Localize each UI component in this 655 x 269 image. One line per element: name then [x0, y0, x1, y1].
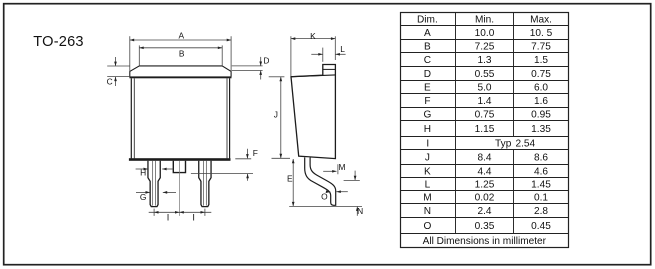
svg-text:1.5: 1.5 [534, 55, 548, 66]
dimension J [269, 76, 285, 78]
svg-text:1.45: 1.45 [531, 180, 551, 191]
svg-text:8.6: 8.6 [534, 153, 548, 164]
svg-text:4.6: 4.6 [534, 167, 548, 178]
front view body right inner edge [226, 78, 228, 158]
svg-text:L: L [340, 44, 345, 54]
svg-text:L: L [425, 180, 431, 191]
svg-text:K: K [310, 31, 316, 41]
svg-text:H: H [140, 167, 146, 177]
dimension C [107, 65, 129, 67]
svg-text:7.25: 7.25 [475, 42, 495, 53]
svg-text:0.35: 0.35 [475, 221, 495, 232]
svg-text:1.3: 1.3 [477, 55, 491, 66]
dimension K [290, 36, 292, 76]
svg-text:8.4: 8.4 [477, 153, 491, 164]
svg-text:0.75: 0.75 [475, 110, 495, 121]
svg-text:M: M [339, 162, 346, 172]
dimension O [326, 191, 331, 194]
svg-text:2.8: 2.8 [534, 206, 548, 217]
svg-text:1.15: 1.15 [475, 124, 495, 135]
svg-text:J: J [425, 153, 430, 164]
svg-text:J: J [274, 109, 278, 119]
dimension B [138, 45, 140, 65]
front view body right edge [229, 78, 231, 158]
svg-text:I: I [192, 213, 195, 223]
dimension D [232, 65, 263, 67]
svg-text:TO-263: TO-263 [33, 34, 83, 50]
svg-text:0.1: 0.1 [534, 193, 548, 204]
svg-text:7.75: 7.75 [531, 42, 551, 53]
svg-text:Typ: Typ [495, 139, 512, 150]
svg-text:10.0: 10.0 [475, 28, 495, 39]
svg-text:I: I [167, 213, 170, 223]
dimension N [344, 179, 360, 181]
svg-text:10. 5: 10. 5 [530, 28, 553, 39]
svg-text:G: G [423, 110, 431, 121]
front view center stub lead [173, 161, 185, 173]
dimension E [292, 159, 294, 206]
svg-text:All Dimensions in millimeter: All Dimensions in millimeter [423, 236, 547, 247]
svg-text:0.55: 0.55 [475, 69, 495, 80]
svg-text:A: A [424, 28, 431, 39]
svg-text:F: F [424, 96, 430, 107]
svg-text:6.0: 6.0 [534, 83, 548, 94]
front view body left edge [130, 78, 132, 158]
svg-text:1.25: 1.25 [475, 180, 495, 191]
svg-text:0.45: 0.45 [531, 221, 551, 232]
svg-text:M: M [423, 193, 431, 204]
svg-text:O: O [423, 221, 431, 232]
svg-text:Dim.: Dim. [417, 15, 438, 26]
svg-text:4.4: 4.4 [477, 167, 491, 178]
dimension L [322, 48, 324, 62]
front view right lead [199, 161, 211, 207]
svg-text:I: I [426, 139, 429, 150]
side view lead (S-bend) [305, 157, 336, 205]
svg-text:1.6: 1.6 [534, 96, 548, 107]
dimension M [337, 164, 339, 174]
dimension table [401, 13, 569, 248]
center line through stub [178, 161, 180, 216]
dimension A [129, 36, 131, 71]
front view tab outline [130, 66, 231, 77]
svg-text:0.95: 0.95 [531, 110, 551, 121]
svg-text:5.0: 5.0 [477, 83, 491, 94]
svg-text:K: K [424, 167, 431, 178]
svg-text:1.4: 1.4 [477, 96, 491, 107]
svg-text:G: G [140, 192, 147, 202]
front view tab bottom edge [129, 76, 231, 78]
svg-text:A: A [179, 30, 185, 40]
svg-text:2.54: 2.54 [515, 139, 535, 150]
svg-text:O: O [321, 192, 328, 202]
svg-text:F: F [253, 148, 258, 158]
svg-text:Min.: Min. [475, 15, 494, 26]
side view tab mid line [323, 68, 336, 70]
dimension G [136, 191, 150, 193]
side view body outline [291, 65, 335, 159]
svg-text:Max.: Max. [530, 15, 552, 26]
svg-text:N: N [357, 206, 363, 216]
svg-text:1.35: 1.35 [531, 124, 551, 135]
svg-text:C: C [107, 76, 113, 86]
front view body left inner edge [133, 78, 135, 158]
front view left lead [148, 161, 160, 207]
dimension H [136, 168, 148, 170]
svg-text:B: B [424, 42, 431, 53]
svg-text:0.02: 0.02 [475, 193, 495, 204]
dimension F [235, 158, 251, 160]
svg-text:N: N [424, 206, 431, 217]
side view body top edge [291, 75, 335, 77]
svg-text:C: C [424, 55, 431, 66]
front view body bottom edge [129, 158, 231, 161]
svg-text:D: D [424, 69, 431, 80]
dimension I (lead pitch) [149, 211, 212, 213]
svg-text:E: E [424, 83, 431, 94]
svg-text:E: E [287, 173, 293, 183]
svg-text:2.4: 2.4 [477, 206, 491, 217]
svg-text:B: B [179, 48, 185, 58]
svg-text:0.75: 0.75 [531, 69, 551, 80]
svg-text:D: D [263, 56, 269, 66]
svg-text:H: H [424, 124, 431, 135]
